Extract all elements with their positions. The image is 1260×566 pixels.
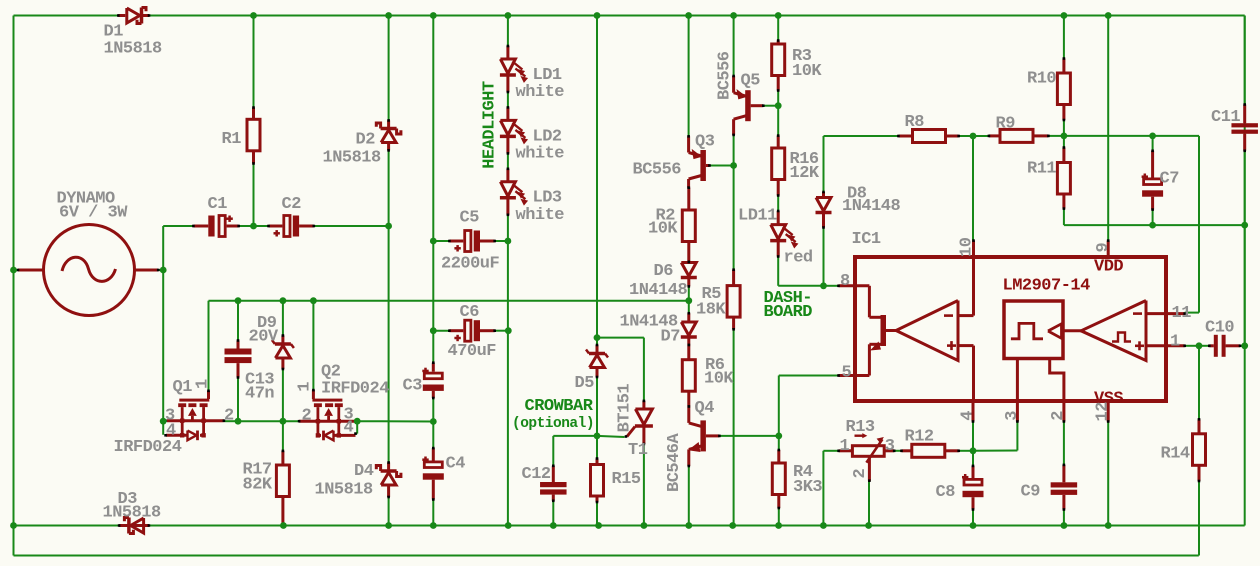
wire bbox=[779, 375, 839, 377]
pin 11 number bbox=[1172, 304, 1192, 323]
IC U1 LM2907-14 body bbox=[837, 239, 1186, 423]
wire bbox=[158, 269, 163, 271]
capacitor C10 bbox=[1205, 319, 1241, 357]
wire bbox=[433, 330, 449, 332]
wire bbox=[388, 150, 390, 226]
junction bbox=[970, 522, 977, 529]
diode D2 1N5818 (schottky) bbox=[323, 119, 401, 167]
junction bbox=[385, 223, 392, 230]
junction bbox=[310, 297, 317, 304]
wire bbox=[14, 15, 119, 17]
label LM2907-14 bbox=[1003, 277, 1091, 296]
wire bbox=[253, 164, 255, 227]
wire bbox=[494, 240, 508, 242]
wire bbox=[224, 420, 238, 422]
label DASH-BOARD bbox=[764, 289, 813, 322]
diode D4 1N5818 (schottky) bbox=[315, 461, 401, 499]
svg-text:D5: D5 bbox=[575, 374, 595, 393]
wire bbox=[432, 500, 434, 526]
wire bbox=[972, 136, 974, 241]
junction bbox=[1061, 133, 1068, 140]
svg-text:1N5818: 1N5818 bbox=[315, 481, 374, 500]
wire bbox=[733, 166, 735, 270]
svg-text:C12: C12 bbox=[522, 465, 551, 484]
wire bbox=[14, 269, 19, 271]
junction bbox=[685, 297, 692, 304]
svg-text:R14: R14 bbox=[1161, 445, 1190, 464]
pin 3 number bbox=[1003, 411, 1022, 421]
svg-text:C11: C11 bbox=[1211, 108, 1240, 127]
LED LD3 white bbox=[500, 168, 564, 226]
wire bbox=[823, 450, 838, 452]
wire bbox=[1063, 120, 1065, 136]
pin 4 number bbox=[959, 411, 978, 421]
zener D5 bbox=[575, 344, 609, 393]
label VSS bbox=[1094, 390, 1123, 409]
wire bbox=[14, 555, 1199, 557]
wire bbox=[163, 225, 193, 227]
resistor R1 bbox=[222, 106, 261, 165]
wire bbox=[823, 228, 825, 286]
wire bbox=[552, 436, 554, 466]
wire bbox=[972, 422, 974, 451]
wire bbox=[1198, 136, 1200, 313]
wire bbox=[1198, 346, 1200, 420]
transistor Q1 IRFD024 bbox=[114, 378, 235, 457]
svg-text:5: 5 bbox=[842, 364, 852, 383]
svg-text:BOARD: BOARD bbox=[764, 303, 813, 322]
svg-text:D6: D6 bbox=[654, 262, 674, 281]
resistor R12 bbox=[900, 428, 960, 458]
junction bbox=[865, 522, 872, 529]
wire bbox=[1107, 422, 1109, 526]
svg-text:D7: D7 bbox=[661, 328, 681, 347]
svg-text:R12: R12 bbox=[905, 428, 934, 447]
pin 10 number bbox=[958, 237, 977, 257]
capacitor C8 (polarized) bbox=[936, 465, 984, 511]
svg-text:R11: R11 bbox=[1027, 160, 1056, 179]
wire bbox=[237, 378, 239, 422]
junction bbox=[775, 433, 782, 440]
junction bbox=[1149, 133, 1156, 140]
junction bbox=[594, 433, 601, 440]
junction bbox=[505, 12, 512, 19]
svg-text:BT151: BT151 bbox=[616, 384, 635, 433]
junction bbox=[10, 267, 17, 274]
wire bbox=[209, 300, 689, 302]
potentiometer R13 bbox=[837, 418, 895, 482]
junction bbox=[595, 522, 602, 529]
wire bbox=[596, 502, 598, 526]
dynamo G1 6V/3W source bbox=[17, 190, 160, 316]
wire bbox=[824, 285, 839, 287]
svg-text:C9: C9 bbox=[1021, 483, 1041, 502]
junction bbox=[1196, 342, 1203, 349]
wire bbox=[868, 481, 870, 526]
wire bbox=[388, 16, 390, 121]
svg-text:82K: 82K bbox=[243, 476, 273, 495]
wire bbox=[1063, 422, 1065, 465]
wire bbox=[596, 377, 598, 459]
junction bbox=[385, 522, 392, 529]
svg-text:3: 3 bbox=[1003, 411, 1022, 421]
svg-text:R8: R8 bbox=[905, 113, 925, 132]
junction bbox=[641, 522, 648, 529]
junction bbox=[1105, 12, 1112, 19]
svg-text:C8: C8 bbox=[936, 483, 956, 502]
wire bbox=[763, 105, 778, 107]
wire bbox=[1063, 510, 1065, 526]
svg-text:BC556: BC556 bbox=[716, 51, 735, 100]
wire bbox=[778, 285, 823, 287]
wire bbox=[507, 153, 509, 168]
pin 5 number bbox=[842, 364, 852, 383]
wire bbox=[1063, 136, 1065, 148]
svg-text:2200uF: 2200uF bbox=[441, 255, 500, 274]
svg-text:3K3: 3K3 bbox=[793, 478, 822, 497]
junction bbox=[685, 522, 692, 529]
svg-text:HEADLIGHT: HEADLIGHT bbox=[481, 81, 500, 169]
label IC1 bbox=[852, 230, 881, 249]
junction bbox=[550, 522, 557, 529]
transistor Q3 BC556 (PNP) bbox=[633, 133, 715, 189]
svg-text:C7: C7 bbox=[1160, 170, 1180, 189]
svg-text:1: 1 bbox=[296, 382, 315, 392]
label CROWBAR bbox=[512, 397, 594, 432]
wire bbox=[253, 16, 255, 108]
resistor R8 bbox=[897, 113, 960, 143]
junction bbox=[730, 12, 737, 19]
wire bbox=[388, 226, 390, 463]
diode D1 1N5818 (top bus) bbox=[104, 8, 163, 59]
svg-text:LD3: LD3 bbox=[533, 189, 562, 208]
wire bbox=[356, 433, 358, 435]
resistor R15 bbox=[591, 457, 641, 503]
junction bbox=[505, 327, 512, 334]
svg-text:BC546A: BC546A bbox=[665, 432, 684, 492]
junction bbox=[430, 522, 437, 529]
label HEADLIGHT bbox=[481, 81, 500, 169]
wire bbox=[282, 301, 284, 336]
svg-text:18K: 18K bbox=[696, 301, 726, 320]
svg-text:Q3: Q3 bbox=[695, 133, 715, 152]
junction bbox=[354, 418, 361, 425]
wire bbox=[733, 16, 735, 77]
junction bbox=[970, 447, 977, 454]
capacitor C13 47n bbox=[225, 339, 275, 403]
wire bbox=[733, 329, 735, 525]
svg-text:R10: R10 bbox=[1027, 70, 1056, 89]
wire bbox=[597, 337, 644, 339]
svg-text:9: 9 bbox=[1094, 243, 1113, 253]
svg-text:red: red bbox=[784, 249, 813, 268]
svg-text:10K: 10K bbox=[648, 220, 678, 239]
svg-text:1N4148: 1N4148 bbox=[629, 281, 688, 300]
svg-text:2: 2 bbox=[224, 407, 234, 426]
wire bbox=[1064, 224, 1245, 226]
wire bbox=[688, 16, 690, 137]
svg-text:BC556: BC556 bbox=[633, 161, 682, 180]
svg-text:D2: D2 bbox=[356, 131, 376, 150]
wire bbox=[733, 135, 735, 166]
wire bbox=[777, 16, 779, 41]
wire bbox=[507, 92, 509, 107]
wire bbox=[507, 16, 509, 47]
junction bbox=[775, 102, 782, 109]
svg-text:C3: C3 bbox=[403, 377, 423, 396]
svg-text:4: 4 bbox=[344, 419, 354, 438]
svg-text:11: 11 bbox=[1172, 304, 1192, 323]
svg-text:R9: R9 bbox=[996, 115, 1016, 134]
svg-text:Q1: Q1 bbox=[173, 378, 193, 397]
wire bbox=[1185, 345, 1199, 347]
wire bbox=[822, 451, 824, 526]
capacitor C6 470uF bbox=[448, 303, 497, 361]
diode D6 1N4148 bbox=[629, 261, 697, 300]
junction bbox=[820, 282, 827, 289]
wire bbox=[237, 301, 239, 341]
svg-text:2: 2 bbox=[1049, 411, 1068, 421]
svg-text:10K: 10K bbox=[704, 370, 734, 389]
resistor R5 18K bbox=[696, 268, 740, 330]
wire bbox=[282, 421, 284, 451]
capacitor C1 (polarized) bbox=[192, 195, 240, 237]
svg-text:8: 8 bbox=[840, 272, 850, 291]
resistor R17 82K bbox=[243, 450, 290, 526]
capacitor C5 2200uF bbox=[441, 209, 500, 274]
svg-text:C10: C10 bbox=[1205, 319, 1234, 338]
diode D8 1N4148 bbox=[816, 185, 901, 229]
svg-text:R15: R15 bbox=[612, 470, 641, 489]
wire bbox=[823, 136, 825, 192]
svg-text:D4: D4 bbox=[354, 462, 374, 481]
junction bbox=[1061, 522, 1068, 529]
resistor R9 bbox=[988, 115, 1050, 143]
wire bbox=[688, 286, 690, 313]
wire bbox=[357, 420, 433, 422]
svg-text:IRFD024: IRFD024 bbox=[321, 380, 389, 399]
junction bbox=[10, 522, 17, 529]
wire bbox=[388, 497, 390, 526]
wire bbox=[493, 330, 509, 332]
wire bbox=[432, 16, 434, 363]
svg-text:R13: R13 bbox=[846, 418, 875, 437]
wire bbox=[238, 420, 283, 422]
junction bbox=[820, 522, 827, 529]
junction bbox=[250, 12, 257, 19]
wire bbox=[643, 338, 645, 401]
junction bbox=[685, 12, 692, 19]
wire bbox=[552, 501, 554, 526]
wire bbox=[432, 398, 434, 448]
junction bbox=[970, 133, 977, 140]
resistor R14 bbox=[1161, 418, 1206, 482]
resistor R4 3K3 bbox=[772, 449, 822, 510]
svg-text:4: 4 bbox=[166, 422, 176, 441]
svg-text:VDD: VDD bbox=[1094, 258, 1123, 277]
transistor Q5 BC556 (PNP) bbox=[716, 51, 765, 136]
junction bbox=[430, 327, 437, 334]
wire bbox=[149, 15, 1245, 17]
junction bbox=[430, 418, 437, 425]
wire bbox=[778, 376, 780, 436]
resistor R3 10K bbox=[772, 39, 823, 92]
resistor R6 10K bbox=[682, 344, 734, 408]
wire bbox=[1063, 209, 1065, 226]
svg-text:2: 2 bbox=[851, 469, 870, 479]
junction bbox=[160, 267, 167, 274]
wire bbox=[777, 106, 779, 136]
svg-text:3: 3 bbox=[885, 437, 895, 456]
junction bbox=[385, 12, 392, 19]
svg-text:12: 12 bbox=[1094, 402, 1113, 422]
wire bbox=[1048, 135, 1064, 137]
svg-text:12K: 12K bbox=[790, 164, 820, 183]
svg-text:2: 2 bbox=[302, 407, 312, 426]
junction bbox=[1149, 222, 1156, 229]
resistor R16 12K bbox=[772, 134, 820, 197]
svg-text:LD11: LD11 bbox=[738, 206, 777, 225]
wire bbox=[959, 135, 989, 137]
junction bbox=[1105, 522, 1112, 529]
svg-text:47n: 47n bbox=[245, 385, 274, 404]
pin 12 number bbox=[1094, 402, 1113, 422]
wire bbox=[719, 435, 778, 437]
svg-text:white: white bbox=[516, 206, 565, 225]
wire bbox=[1244, 151, 1246, 346]
wire bbox=[1107, 16, 1109, 241]
diode D7 1N4148 bbox=[620, 312, 697, 347]
wire bbox=[824, 135, 899, 137]
junction bbox=[280, 418, 287, 425]
svg-text:1N5818: 1N5818 bbox=[104, 40, 163, 59]
wire bbox=[643, 444, 645, 526]
wire bbox=[282, 369, 284, 421]
wire bbox=[356, 421, 358, 433]
wire bbox=[959, 450, 973, 452]
svg-text:10K: 10K bbox=[792, 62, 822, 81]
wire bbox=[1240, 345, 1245, 347]
wire bbox=[777, 257, 779, 286]
wire bbox=[597, 436, 625, 437]
capacitor C2 (polarized) bbox=[267, 195, 315, 237]
svg-text:1: 1 bbox=[840, 437, 850, 456]
wire bbox=[433, 240, 449, 242]
junction bbox=[280, 522, 287, 529]
svg-text:white: white bbox=[516, 83, 565, 102]
wire bbox=[777, 91, 779, 106]
svg-text:6V / 3W: 6V / 3W bbox=[59, 204, 128, 223]
LED LD11 red bbox=[738, 206, 813, 267]
junction bbox=[1061, 12, 1068, 19]
capacitor C12 bbox=[522, 465, 567, 503]
transistor Q4 BC546A (NPN) bbox=[665, 399, 721, 492]
wire bbox=[208, 301, 210, 391]
wire bbox=[149, 525, 1245, 527]
wire bbox=[1152, 136, 1154, 151]
LED LD1 white bbox=[500, 45, 564, 102]
svg-text:R1: R1 bbox=[222, 130, 242, 149]
resistor R11 bbox=[1027, 146, 1070, 210]
wire bbox=[239, 225, 268, 227]
svg-text:1N5818: 1N5818 bbox=[323, 149, 382, 168]
junction bbox=[250, 223, 257, 230]
junction bbox=[160, 418, 167, 425]
wire bbox=[972, 510, 974, 526]
wire bbox=[13, 16, 15, 556]
capacitor C4 bbox=[422, 447, 465, 501]
svg-text:CROWBAR: CROWBAR bbox=[525, 397, 594, 416]
wire bbox=[894, 450, 901, 452]
svg-text:C1: C1 bbox=[208, 195, 228, 214]
LED LD2 white bbox=[500, 106, 564, 163]
junction bbox=[775, 12, 782, 19]
wire bbox=[1244, 16, 1246, 526]
svg-text:1N4148: 1N4148 bbox=[842, 197, 901, 216]
pin 2 number bbox=[1049, 411, 1068, 421]
wire bbox=[973, 450, 1017, 452]
wire bbox=[1199, 345, 1209, 347]
capacitor C7 (polarized) bbox=[1142, 150, 1180, 211]
junction bbox=[1241, 342, 1248, 349]
junction bbox=[430, 238, 437, 245]
junction bbox=[280, 297, 287, 304]
junction bbox=[235, 418, 242, 425]
wire bbox=[1064, 135, 1199, 137]
junction bbox=[505, 522, 512, 529]
wire bbox=[777, 196, 779, 212]
junction bbox=[594, 334, 601, 341]
svg-text:(optional): (optional) bbox=[512, 416, 594, 432]
junction bbox=[775, 522, 782, 529]
junction bbox=[505, 238, 512, 245]
capacitor C11 bbox=[1211, 103, 1258, 152]
svg-text:Q5: Q5 bbox=[741, 72, 761, 91]
svg-text:20V: 20V bbox=[249, 328, 279, 347]
wire bbox=[14, 525, 120, 527]
svg-text:C5: C5 bbox=[460, 209, 480, 228]
svg-text:IC1: IC1 bbox=[852, 230, 881, 249]
wire bbox=[596, 16, 598, 346]
junction bbox=[430, 12, 437, 19]
svg-text:LM2907-14: LM2907-14 bbox=[1003, 277, 1091, 296]
wire bbox=[553, 435, 597, 437]
diode D3 1N5818 (schottky, ground bus) bbox=[103, 490, 162, 534]
wire bbox=[1198, 481, 1200, 556]
svg-text:C4: C4 bbox=[446, 455, 466, 474]
svg-text:1: 1 bbox=[194, 379, 213, 389]
pin 9 number bbox=[1094, 243, 1113, 253]
svg-text:4: 4 bbox=[959, 411, 978, 421]
thyristor T1 BT151 bbox=[616, 384, 653, 460]
junction bbox=[729, 522, 736, 529]
wire bbox=[314, 225, 389, 227]
svg-text:white: white bbox=[516, 145, 565, 164]
wire bbox=[710, 165, 734, 167]
pin 8 number bbox=[840, 272, 850, 291]
label VDD bbox=[1094, 258, 1123, 277]
capacitor C9 bbox=[1021, 464, 1078, 511]
junction bbox=[1241, 222, 1248, 229]
zener D9 20V bbox=[249, 314, 294, 370]
wire bbox=[507, 215, 509, 526]
wire bbox=[1244, 16, 1246, 105]
svg-text:1N5818: 1N5818 bbox=[103, 504, 162, 523]
transistor Q2 IRFD024 bbox=[296, 363, 390, 441]
svg-text:10: 10 bbox=[958, 237, 977, 257]
resistor R2 10K bbox=[648, 186, 695, 263]
wire bbox=[1185, 312, 1199, 314]
